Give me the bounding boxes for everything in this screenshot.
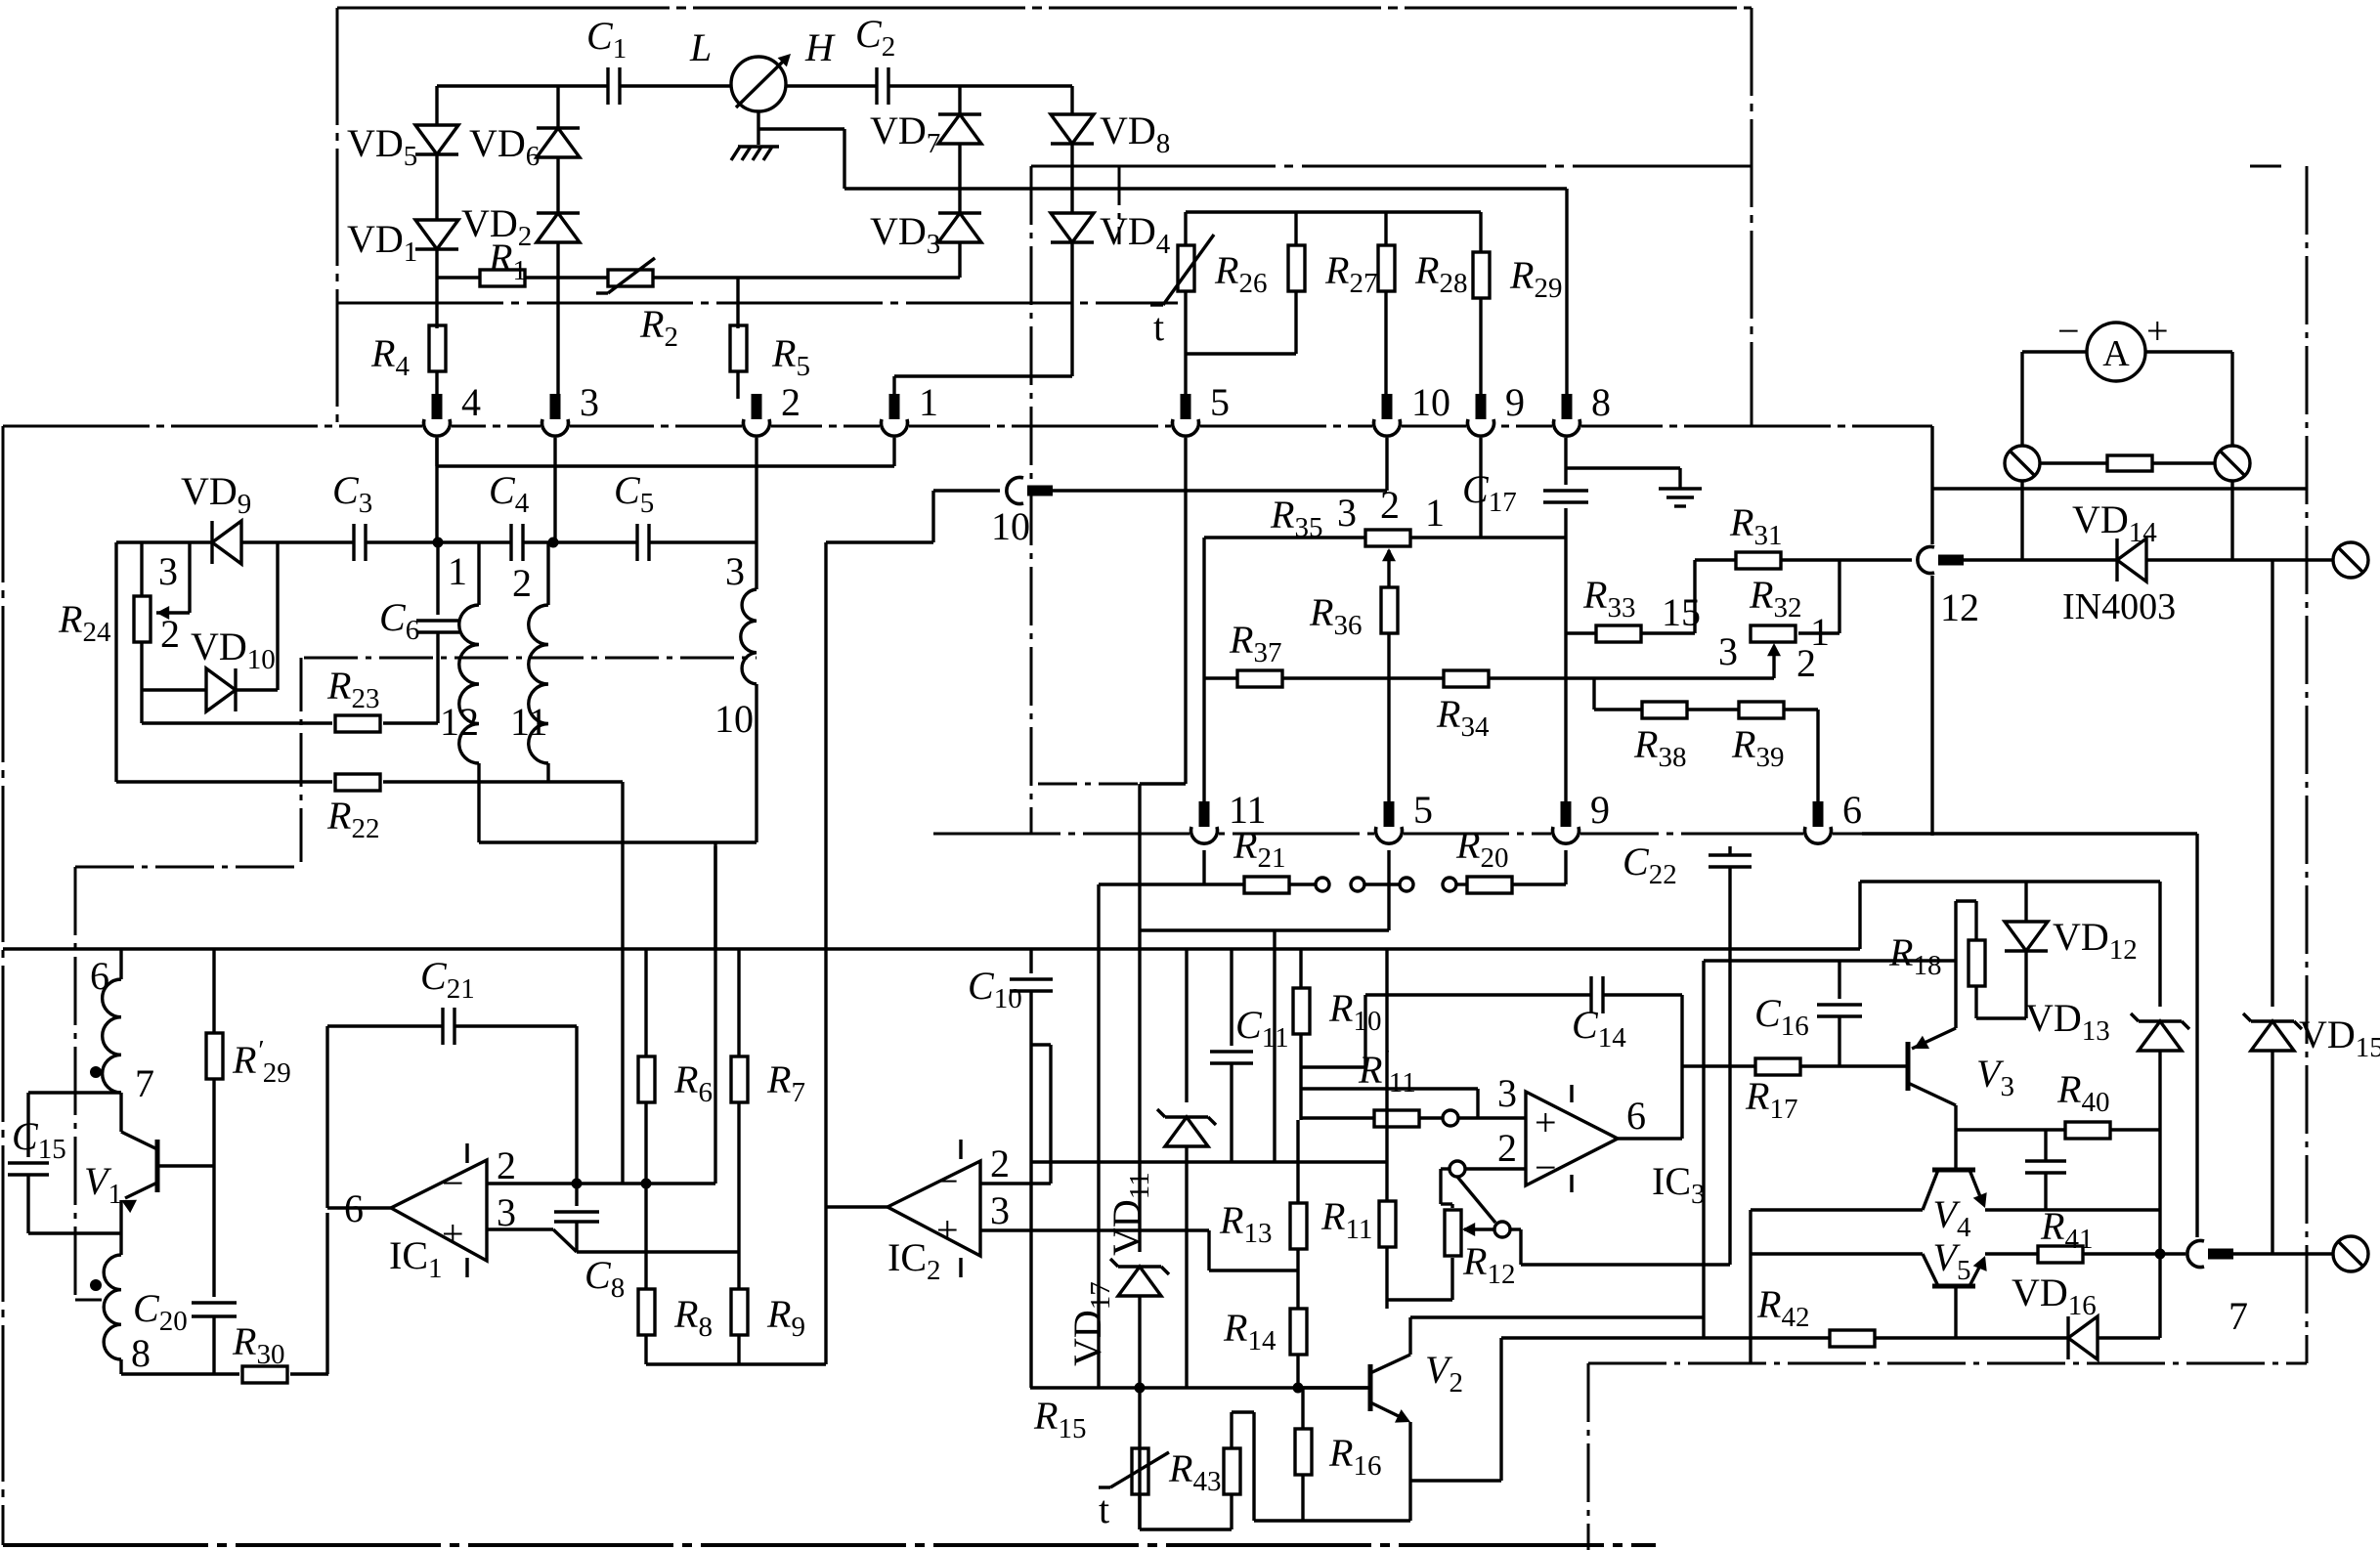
wire: left loop vertical x=119	[114, 542, 117, 782]
capacitor C17	[1543, 489, 1588, 492]
wire: connector 9 lead down to R35 rail	[1479, 426, 1482, 538]
zener diode VD15	[2271, 560, 2273, 1007]
svg-text:10: 10	[1411, 380, 1450, 424]
wire: V3 collector down to V4 base	[1954, 1105, 1957, 1170]
resistor R16	[1301, 1388, 1304, 1429]
thermistor R15	[1132, 1448, 1148, 1494]
wire: second connector row y=853	[933, 833, 1862, 836]
thermistor R26	[1184, 212, 1187, 244]
wire: oscillator shield dash-dot box right edge x=308	[300, 658, 303, 867]
connector 9 (row 2)	[1551, 832, 1580, 837]
wire: VD10 right lead up to VD9 rail	[276, 542, 279, 690]
svg-text:2: 2	[990, 1141, 1010, 1185]
wire: main box right edge x=1977 upper part	[1930, 426, 1933, 544]
wire: shunt bar y=500	[1932, 487, 2307, 490]
svg-text:3: 3	[1718, 629, 1738, 673]
svg-text:9: 9	[1590, 788, 1610, 832]
wire: R5 column from R2 wire	[736, 278, 739, 328]
svg-text:10: 10	[714, 697, 754, 741]
capacitor C21	[327, 1024, 443, 1027]
wire: connector 2 lead down / winding 3	[755, 426, 757, 589]
capacitor C3	[352, 524, 355, 561]
resistor R20	[1467, 877, 1512, 893]
wire: connector-10 left jog to IC2 column	[933, 489, 1000, 492]
wire: left terminal drop to VD14 line	[2020, 481, 2023, 560]
wire: outer frame top edge of top shield box	[337, 7, 1752, 10]
resistor R13	[1296, 1120, 1299, 1203]
wire: C11 column x=1260	[1230, 949, 1233, 1046]
wire: connector 10 top lead down	[1385, 426, 1388, 491]
resistor R2 (preset)	[608, 270, 653, 286]
wire: base feed drop x=1791	[1749, 1210, 1752, 1363]
wire: R'11 bypass rail y=1114	[1301, 1087, 1478, 1090]
connector 3	[541, 424, 570, 429]
wire: pin2 rail corner up x=732	[714, 846, 716, 1184]
polarity dot upper	[90, 1066, 102, 1078]
wire: R10 bottom to C14 loop riser	[1301, 1065, 1365, 1068]
resistor R7	[731, 1056, 748, 1102]
wire: R33 rail y=648	[1566, 631, 1597, 634]
wire: C17 / connector 8 column x=1602	[1564, 426, 1567, 485]
wire: pin2 drop to R12 top	[1439, 1169, 1442, 1204]
svg-text:5: 5	[1210, 380, 1230, 424]
zener diode VD17	[1118, 1267, 1161, 1296]
wire: dash-dot horizontal y=170 from shield corner to top box right edge	[1031, 165, 1752, 168]
wire: meter bottom tee to the right	[758, 127, 844, 130]
wire: R16/V2 emitter rail y=1556	[1254, 1519, 1410, 1522]
resistor R23	[335, 715, 380, 732]
wire: horizontal bus y=193 to connector 8 column	[844, 187, 1567, 190]
wire: R18 bottom link to VD12	[1976, 1016, 2026, 1019]
diode VD7	[938, 114, 981, 144]
wire: C3 to node 1	[366, 540, 438, 543]
wire: R39 drop to connector 6	[1816, 710, 1819, 808]
wire: connector-5b lead from switch wire to y=952 link	[1387, 884, 1390, 930]
transformer winding 3 (pins 3-10)	[741, 589, 757, 684]
wire: dash-dot bottom-right border y=1395	[1588, 1362, 2307, 1365]
wire: C10 feedback loop to IC2 pin2	[1031, 1043, 1051, 1046]
wire: emitter down to lower winding	[119, 1200, 122, 1255]
wire: connector-10 wire to connector-10 top lead	[1049, 489, 1387, 492]
resistor R43	[1224, 1448, 1240, 1494]
wire: connector 1 lead down to y=477 link	[892, 426, 895, 466]
resistor R38	[1642, 702, 1687, 718]
connector 10	[1372, 424, 1402, 429]
svg-text:12: 12	[440, 700, 479, 744]
wire: dash-dot vertical shield x=1055 (connector 10 screen)	[1030, 166, 1033, 834]
svg-text:3: 3	[725, 549, 745, 593]
resistor R18	[1974, 901, 1977, 939]
wire: ground tap from C17 column	[1566, 466, 1680, 469]
resistor R6	[638, 1056, 655, 1102]
wire: R20 to connector 9b lead	[1513, 883, 1566, 885]
wire: VD4 down and over to connector 1	[1070, 242, 1073, 376]
switch contact circle at IC3 pin3	[1443, 1110, 1458, 1126]
diode VD6	[537, 128, 580, 157]
connector 2	[742, 424, 771, 429]
diode VD9 rail y=555	[116, 540, 212, 543]
wire: bottom rail y=1406 to R30 and IC1 output column	[121, 1372, 239, 1375]
wire: C2 to VD8 column corner	[888, 84, 1072, 87]
wire: IC1 output	[327, 1206, 391, 1209]
wire: wiper to y=1294 rail	[1510, 1227, 1521, 1230]
wire: VD5-VD1 column x=447	[435, 86, 438, 125]
capacitor C8	[575, 1184, 578, 1206]
svg-text:7: 7	[135, 1061, 154, 1105]
wire: R11/R12 bottom rail y=1339	[1387, 1298, 1452, 1301]
wire: C21 drop to pin2 rail	[575, 1026, 578, 1184]
svg-text:+: +	[442, 1212, 464, 1256]
resistor R42	[1830, 1330, 1875, 1347]
wire: y=952 link	[1140, 928, 1389, 931]
wire: VD2 down to connector 3	[556, 242, 559, 399]
wire: R24 top lead	[140, 542, 143, 596]
wire: IC1 pin2 rail y=1211	[487, 1182, 715, 1184]
svg-text:−: −	[2057, 309, 2080, 353]
resistor R29' (bias)	[212, 949, 215, 1033]
wire: oscillator shield dash-dot top edge y=887	[75, 866, 301, 869]
svg-text:1: 1	[448, 549, 467, 593]
diode VD10	[206, 668, 236, 711]
wire: dash-dot right border x=2360	[2306, 166, 2309, 1363]
zener diode VD11	[1185, 949, 1188, 1102]
wire: V5 collector wire to the left	[1751, 1252, 1923, 1255]
capacitor C16	[1838, 961, 1840, 999]
diode VD3	[938, 213, 981, 242]
svg-text:6: 6	[90, 954, 109, 998]
svg-text:A: A	[2102, 333, 2130, 374]
diode VD9	[212, 521, 241, 564]
wire: VD7 to y=193 bus	[958, 144, 961, 189]
wire: R36 down to second-row connector 5	[1387, 632, 1390, 808]
wire: R6 column	[644, 949, 647, 1056]
op-amp IC3	[1526, 1092, 1618, 1185]
terminal (right calibration jack)	[2215, 446, 2250, 481]
wire: tap 7 link to C15	[28, 1091, 121, 1094]
op-amp IC2	[887, 1161, 980, 1256]
resistor R'11 (series input)	[1374, 1110, 1419, 1127]
resistor R5	[730, 325, 747, 371]
potentiometer R24	[134, 596, 151, 642]
resistor R4	[429, 325, 446, 371]
terminal (output right, bottom)	[2333, 1236, 2368, 1271]
capacitor C5	[635, 524, 638, 561]
svg-text:+: +	[2146, 309, 2169, 353]
wire: VD16 to box right edge corner	[2098, 1336, 2160, 1339]
resistor R41	[2038, 1246, 2083, 1263]
switch contact circle at IC3 pin2	[1450, 1161, 1465, 1177]
diode VD14	[2117, 538, 2146, 581]
transistor V5 (lower of complementary pair)	[1932, 1284, 1975, 1289]
wire: V2 collector rail to supply column	[1410, 1315, 1704, 1318]
potentiometer R12	[1450, 1204, 1453, 1208]
resistor R37	[1237, 670, 1282, 687]
connector 12	[1925, 545, 1930, 575]
resistor R27	[1294, 212, 1297, 244]
svg-text:12: 12	[1940, 585, 1979, 629]
wire: VD14 line y=573 from connector 12 to terminal	[1960, 558, 2117, 561]
wire: y=802 link from VD17 column to connector-5 lead	[1140, 782, 1186, 785]
wire: winding1 bottom to corner	[477, 763, 480, 842]
svg-text:t: t	[1153, 305, 1164, 349]
wire: connector 8 upper lead x=1603	[1565, 189, 1568, 399]
wire: collector lead on coil column	[119, 1093, 122, 1132]
wire: R12 wiper arrow	[1464, 1227, 1494, 1230]
diode VD4	[1051, 213, 1094, 242]
svg-text:t: t	[1099, 1487, 1109, 1531]
wire: bottom border y=1581	[3, 1543, 1656, 1547]
wire: drop x=1304 from y=952 to main bus and C11 rail	[1273, 930, 1276, 1162]
diode VD5	[415, 125, 458, 154]
resistor R30	[242, 1366, 287, 1383]
wire: R22 rail y=800	[116, 780, 332, 783]
wire: dash-dot vertical x=1625 bottom area	[1587, 1363, 1590, 1550]
wire: ammeter right lead	[2145, 350, 2232, 353]
capacitor C2	[875, 67, 878, 105]
wire: left edge of main box x=3	[2, 426, 5, 1545]
svg-text:7: 7	[2229, 1294, 2248, 1338]
wire: R31 rail y=573	[1695, 558, 1735, 561]
svg-text:6: 6	[1626, 1094, 1646, 1138]
wire: main box right edge x=1977 lower part to connector row	[1930, 576, 1933, 836]
svg-text:L: L	[689, 25, 712, 69]
connector 8	[1552, 424, 1581, 429]
wire: VD3 to R2 wire	[958, 242, 961, 278]
wire: R37/R34 rail y=694	[1204, 676, 1237, 679]
wire: vertical from row corner down to connector 7	[2195, 834, 2198, 1237]
resistor R11	[1385, 1162, 1388, 1201]
wire: connector 5b lower lead through switch rail	[1387, 850, 1390, 884]
wire: contact to R20	[1456, 883, 1466, 885]
capacitor C22	[1728, 846, 1731, 855]
wire: R15/R43 bottom rail y=1565	[1140, 1528, 1232, 1530]
svg-text:6: 6	[1842, 788, 1862, 832]
ground symbol under meter (chassis)	[738, 145, 779, 148]
connector 5 (row 2)	[1374, 832, 1404, 837]
resistor R40	[2065, 1122, 2110, 1139]
svg-text:1: 1	[919, 380, 938, 424]
connector 7	[2194, 1239, 2200, 1269]
diode VD10 rail y=706	[142, 688, 206, 691]
resistor R9	[731, 1289, 748, 1335]
wire: IC2 pin3 rail with jog to R13	[980, 1228, 1209, 1231]
resistor R22	[335, 774, 380, 791]
wire: corner drop x=732 to main bus	[714, 842, 716, 949]
wire: R35 rail y=550	[1204, 536, 1365, 538]
wire: IC3 pin3 rail y=1144	[1301, 1116, 1374, 1119]
wire: R38/R39 rail y=726	[1592, 678, 1595, 710]
capacitor C4	[509, 524, 512, 561]
wire: output box top edge y=902	[1860, 880, 2160, 883]
svg-text:2: 2	[1497, 1126, 1517, 1170]
wire: R11 column top	[1385, 949, 1388, 1162]
wire: R32 right lead up to R31 rail	[1798, 631, 1839, 634]
wire: R8/R9 bottom rail to IC2 output column	[646, 1362, 826, 1365]
switch contacts (range selector)	[1316, 878, 1329, 891]
svg-text:3: 3	[158, 549, 178, 593]
wire: meter to C2	[786, 84, 877, 87]
svg-text:2: 2	[497, 1143, 516, 1187]
wire: C15 bottom link to emitter column	[28, 1231, 121, 1234]
connector 10 (feedthrough)	[1014, 476, 1019, 505]
svg-text:8: 8	[1591, 380, 1611, 424]
wire: VD1 to R1 node	[435, 249, 438, 278]
wire: top rail y=88 from VD5 column to C1	[437, 84, 608, 87]
wire: oscillator shield dash-dot left edge x=77	[74, 867, 77, 1300]
connector 4	[422, 424, 452, 429]
svg-text:+: +	[1535, 1100, 1557, 1144]
wire: winding 8 bottom corner	[119, 1359, 122, 1374]
wire: V2 base rail y=1420	[1030, 1386, 1368, 1389]
potentiometer R32	[1751, 625, 1796, 642]
transistor V3	[1906, 1042, 1911, 1091]
fuse between terminals	[2040, 461, 2107, 464]
wire: V5 base lead down to R42 rail	[1954, 1286, 1957, 1338]
wire: top box right edge	[1751, 8, 1753, 426]
wire: R17 rail y=1091	[1682, 1064, 1755, 1067]
wire: VD7-VD3 column	[958, 86, 961, 114]
capacitor C15	[26, 1093, 29, 1157]
meter L-H (tuning indicator)	[731, 57, 786, 111]
potentiometer R35	[1365, 530, 1410, 546]
svg-text:5: 5	[1413, 788, 1433, 832]
svg-text:H: H	[804, 25, 836, 69]
terminal (left calibration jack)	[2005, 446, 2040, 481]
connector 9	[1466, 424, 1495, 429]
transformer winding 1 (pins 1-12)	[477, 542, 480, 605]
transformer winding 2 (pins 2-11)	[546, 542, 549, 605]
wire: R40 rail y=1156	[1956, 1128, 2065, 1131]
svg-text:2: 2	[512, 561, 532, 605]
svg-text:1: 1	[1425, 491, 1445, 535]
diode VD1	[415, 220, 458, 249]
svg-text:3: 3	[580, 380, 599, 424]
wire: C14 column x=1721 to IC3 output	[1680, 995, 1683, 1139]
wire: C14 feedback rail y=1018	[1365, 993, 1591, 996]
wire: dash-dot stub x=1145	[1118, 166, 1121, 244]
wire: supply column x=1743	[1702, 961, 1705, 1338]
wire: VD8-VD4 column	[1070, 86, 1073, 114]
connector 11	[1190, 832, 1219, 837]
svg-text:2: 2	[160, 612, 180, 656]
terminal (output right, top)	[2333, 542, 2368, 578]
wire: R22 net drop x=637 to IC1 area	[621, 782, 624, 1184]
resistor R8	[638, 1289, 655, 1335]
wire: R42 rail y=1369	[1501, 1336, 1829, 1339]
wire: IC3 pin2 rail y=1196	[1441, 1167, 1450, 1170]
capacitor C20	[192, 1301, 237, 1304]
wire: wiper arrow up into R32	[1772, 647, 1775, 678]
wire: IC3 output to C14 column	[1618, 1137, 1682, 1140]
wire: C11 bottom rail y=1189	[1031, 1160, 1387, 1163]
svg-text:3: 3	[497, 1190, 516, 1234]
wire: V2 emitter jog to R42 rail	[1410, 1479, 1501, 1482]
wire: R41 rail y=1283	[1985, 1252, 2038, 1255]
wire: R21 switch rail y=905	[1099, 883, 1244, 885]
svg-text:IN4003: IN4003	[2062, 586, 2176, 627]
wire: R24 bottom lead to VD10 rail	[140, 642, 143, 723]
wire: VD6-VD2 column upper lead	[556, 86, 559, 128]
capacitor (output compensation)	[2044, 1130, 2047, 1161]
wire: R27 bottom to R26 line	[1186, 352, 1296, 355]
diode VD16	[2068, 1316, 2098, 1359]
potentiometer R36 with wiper arrow to R35	[1387, 550, 1390, 586]
connector 5	[1171, 424, 1200, 429]
wire: connector 3 lead down to C4/C5 node	[553, 426, 556, 542]
svg-text:2: 2	[781, 380, 801, 424]
wire: R35 pin3 drop to connector 11	[1202, 538, 1205, 808]
svg-text:+: +	[936, 1208, 959, 1252]
wire: R1 R2 horizontal y=284	[437, 276, 480, 279]
svg-text:10: 10	[991, 504, 1030, 548]
resistor R33	[1596, 625, 1641, 642]
diode VD12	[2024, 882, 2027, 922]
zener diode VD13	[2158, 882, 2161, 1007]
resistor R28	[1384, 212, 1387, 244]
wire: C10 column x=1055	[1029, 949, 1032, 973]
svg-text:8: 8	[131, 1331, 151, 1375]
wire: R24 wiper arrow	[156, 606, 169, 620]
wire: second row solid extension to connector 7 drop	[1862, 832, 2197, 835]
resistor R34	[1444, 670, 1489, 687]
connector 1	[880, 424, 909, 429]
wire: meter bottom lead	[757, 111, 759, 145]
wire: connector 11 lower lead	[1202, 850, 1205, 884]
wire: link y=477 between connector 4 and connector 1 leads	[437, 464, 894, 467]
wire: oscillator shield dash-dot bottom stub y=1330	[75, 1299, 102, 1302]
svg-text:−: −	[1535, 1145, 1557, 1189]
wire: R21 net drop x=1124 to V2 base rail	[1097, 884, 1100, 1388]
resistor R29	[1479, 212, 1482, 252]
wire: V4 emitter rail y=1238	[1985, 1208, 2160, 1211]
wire: IC1 output column down to R30 rail	[325, 1213, 328, 1374]
capacitor C1	[606, 67, 609, 105]
wire: inner dash-dot shield line y=310 in top box	[337, 302, 1178, 305]
capacitor C14	[1589, 976, 1592, 1013]
svg-text:3: 3	[990, 1188, 1010, 1232]
wire: transformer screen dash-dot y=673	[304, 657, 757, 660]
wire: R7 column	[737, 949, 740, 1056]
wire: ammeter left lead	[2022, 350, 2087, 353]
svg-text:3: 3	[1497, 1071, 1517, 1115]
wire: main horizontal bus y=971	[3, 947, 1860, 950]
resistor R14	[1290, 1309, 1307, 1355]
wire: VD17 column x=1166 upper part	[1138, 784, 1141, 930]
wire: V4 collector wire to the left	[1751, 1208, 1923, 1211]
connector 6	[1803, 832, 1833, 837]
transistor V4 (upper of complementary pair)	[1932, 1168, 1975, 1173]
svg-text:−: −	[442, 1161, 464, 1205]
wire: R23 rail y=740	[142, 721, 332, 724]
svg-text:−: −	[936, 1159, 959, 1203]
switch contact circle at R12 wiper	[1494, 1222, 1510, 1237]
ammeter A	[2087, 323, 2145, 381]
svg-text:3: 3	[1337, 491, 1357, 535]
wire: top box left edge (dash-dot)	[336, 8, 339, 426]
wire: top bracket y=217 for R26-R29	[1186, 210, 1481, 213]
wire: connector 5 lead down x=1213	[1184, 426, 1187, 784]
wire: C1 to meter	[620, 84, 731, 87]
svg-text:9: 9	[1505, 380, 1525, 424]
wire: V3 feed rail y=983	[1704, 959, 1956, 962]
wire: R18 top jog	[1954, 901, 1957, 1028]
wire: IC1 pin3 rail y=1258 with jog	[487, 1227, 553, 1230]
diode VD2	[537, 213, 580, 242]
resistor R39	[1739, 702, 1784, 718]
op-amp IC1	[391, 1160, 487, 1261]
wire: IC2 output column x=845	[824, 542, 827, 1364]
transistor V2	[1298, 1386, 1370, 1389]
